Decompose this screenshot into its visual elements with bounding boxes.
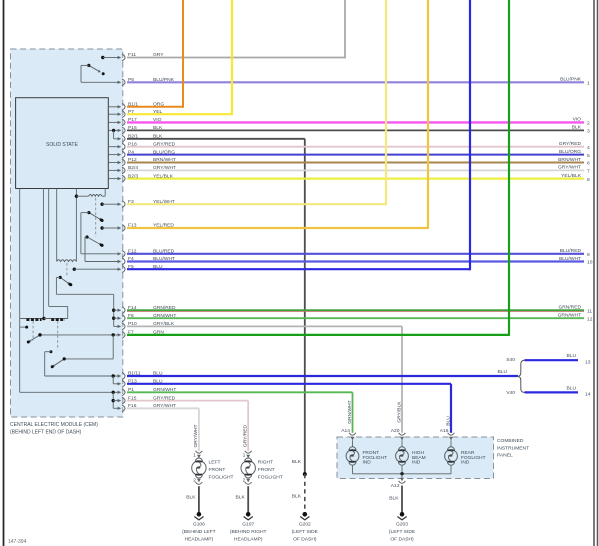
svg-text:PANEL: PANEL <box>497 453 513 459</box>
left front foglight connector pin 2 <box>197 479 201 483</box>
svg-text:IND: IND <box>412 460 421 466</box>
wire 6 P12 BRN/WHT <box>127 162 584 164</box>
svg-text:GRY/WHT: GRY/WHT <box>193 424 199 447</box>
pin P10 connector + label GRY/BLK <box>118 325 122 328</box>
svg-text:S40: S40 <box>506 357 515 363</box>
svg-text:(LEFT SIDE: (LEFT SIDE <box>292 529 319 535</box>
svg-text:(BEHIND LEFT: (BEHIND LEFT <box>182 529 215 535</box>
svg-text:BLK: BLK <box>572 125 582 131</box>
svg-text:5: 5 <box>587 153 590 159</box>
wire 3 P16 BLK <box>127 129 584 131</box>
switch S4 <box>28 335 40 342</box>
svg-text:13: 13 <box>585 359 591 365</box>
pin P4 connector + label BLU/ORG <box>118 153 122 156</box>
svg-text:G202: G202 <box>299 521 311 527</box>
svg-text:GRY/BLK: GRY/BLK <box>396 401 402 423</box>
wire P1 GRN/WHT down to A14 <box>127 391 353 393</box>
pin P18 connector + label GRY/RED <box>118 145 122 148</box>
wire 10 F4 BLU/WHT <box>127 260 584 262</box>
left front foglight connector pin 1 <box>196 451 203 453</box>
wire 8 B2/3 YEL/BLK <box>127 178 584 180</box>
wire: box vertical to bar junction <box>42 189 44 319</box>
svg-text:2: 2 <box>193 477 196 483</box>
pin B2/3 connector + label YEL/BLK <box>118 177 122 180</box>
switch S1 (fog relay contact) <box>89 213 102 220</box>
switch S2 <box>87 237 101 245</box>
resistor bar R1 <box>20 318 44 320</box>
svg-text:A14: A14 <box>341 428 350 434</box>
svg-text:(LEFT SIDE: (LEFT SIDE <box>389 529 416 535</box>
pin P7 connector + label YEL <box>118 113 122 116</box>
svg-text:BLU: BLU <box>566 353 576 359</box>
rear foglight indicator lamp <box>450 440 452 447</box>
svg-text:FRONT: FRONT <box>209 467 226 473</box>
svg-text:OF DASH): OF DASH) <box>390 536 414 542</box>
svg-text:BLK: BLK <box>292 493 302 499</box>
wire P7 YEL to top <box>127 113 232 115</box>
svg-text:IND: IND <box>363 460 372 466</box>
wire 9 F12 BLU/RED <box>127 253 584 255</box>
wire B1/1 ORG to top <box>127 106 183 108</box>
ground G203 <box>400 512 405 517</box>
svg-text:8: 8 <box>587 177 590 183</box>
svg-text:147-394: 147-394 <box>8 539 27 545</box>
switch S5 contact to B1/11 <box>49 350 52 353</box>
svg-text:BLU/WHT: BLU/WHT <box>559 256 581 262</box>
wire: box vertical to bar2 right (staple) <box>48 189 50 307</box>
pin B2/1 connector + label BLK <box>118 137 122 140</box>
svg-text:A16: A16 <box>440 428 449 434</box>
svg-text:GRN/RED: GRN/RED <box>558 305 581 311</box>
svg-text:(BEHIND RIGHT: (BEHIND RIGHT <box>230 529 267 535</box>
jumper P16 to B2/1 <box>112 129 115 132</box>
wire F7 GRN to top <box>127 334 509 336</box>
wire P13 BLU down to A16 <box>127 383 451 385</box>
wire 4 P18 GRY/RED <box>127 146 584 148</box>
svg-text:GRN/WHT: GRN/WHT <box>558 313 581 319</box>
R1 actuator dashed link <box>32 321 34 341</box>
wire BLK dashed to G202 <box>304 474 306 513</box>
svg-text:OF DASH): OF DASH) <box>293 536 317 542</box>
wire: P1 row <box>20 391 118 393</box>
wire 1 P6 BLU/PNK <box>127 81 584 83</box>
wire: S2 pivot to F4 row <box>85 236 87 238</box>
wire 12 F6 GRN/WHT <box>127 317 584 319</box>
svg-text:YEL/BLK: YEL/BLK <box>561 173 582 179</box>
svg-text:G203: G203 <box>396 521 408 527</box>
svg-text:IND: IND <box>461 460 470 466</box>
wire B1/11 BLU to splice brace <box>127 375 518 377</box>
pin F6 connector + label GRN/WHT <box>118 317 122 320</box>
svg-text:GRY/RED: GRY/RED <box>243 424 249 447</box>
CEM module background <box>11 49 123 417</box>
wire F5 BLU to top <box>127 268 470 270</box>
svg-text:CENTRAL ELECTRIC MODULE (CEM): CENTRAL ELECTRIC MODULE (CEM) <box>10 422 98 428</box>
pin P12 connector + label BRN/WHT <box>118 161 122 164</box>
svg-text:14: 14 <box>585 392 591 398</box>
svg-text:LEFT: LEFT <box>209 459 221 465</box>
relay coil K2 <box>57 260 77 262</box>
wire: F7 column down to S5 <box>112 333 115 336</box>
wire: box to relay coil K2 <box>56 189 58 262</box>
splice brace S40/V40 <box>517 360 524 392</box>
svg-text:BLU: BLU <box>497 369 507 375</box>
wire: F3 terminal <box>100 203 103 206</box>
wire: F11 internal stub <box>101 56 104 59</box>
pin F5 connector + label BLU <box>118 268 122 271</box>
pin F7 connector + label GRN <box>118 333 122 336</box>
ground G107 <box>246 512 251 517</box>
svg-text:(BEHIND LEFT END OF DASH): (BEHIND LEFT END OF DASH) <box>10 430 82 436</box>
svg-text:BLU/PNK: BLU/PNK <box>560 77 582 83</box>
svg-text:FOGLIGHT: FOGLIGHT <box>209 474 234 480</box>
wire F11 GRY to top <box>127 57 345 59</box>
wire 13 S40 BLU <box>525 359 579 361</box>
svg-text:BLU: BLU <box>445 416 451 426</box>
pin F15 connector + label GRY/RED <box>118 399 122 402</box>
svg-text:INSTRUMENT: INSTRUMENT <box>497 445 529 451</box>
wire 5 P4 BLU/ORG <box>127 154 584 156</box>
svg-text:GRN/WHT: GRN/WHT <box>347 400 353 423</box>
svg-text:V40: V40 <box>506 390 515 396</box>
svg-text:1: 1 <box>243 453 246 459</box>
pin B1/1 connector + label ORG <box>118 105 122 108</box>
pin F14 connector + label GRN/RED <box>118 309 122 312</box>
svg-text:HEADLAMP): HEADLAMP) <box>234 536 263 542</box>
svg-text:BRN/WHT: BRN/WHT <box>558 157 581 163</box>
wire: F5 terminal <box>73 268 76 271</box>
svg-text:G107: G107 <box>242 521 254 527</box>
svg-text:4: 4 <box>587 145 590 151</box>
svg-text:COMBINED: COMBINED <box>497 438 524 444</box>
jumper P1 to F15 to F16 <box>112 391 115 394</box>
left front foglight lamp <box>192 461 206 475</box>
switch S4 contact <box>20 326 27 328</box>
svg-text:BLK: BLK <box>389 495 399 501</box>
svg-text:RIGHT: RIGHT <box>258 459 273 465</box>
R2 actuator dashed link <box>57 321 59 350</box>
wire P10 GRY/BLK down to A20 <box>127 325 402 327</box>
wire F16 GRY/WHT down to left foglight <box>127 407 199 409</box>
svg-text:GRY/RED: GRY/RED <box>559 141 582 147</box>
connector A13 <box>401 474 403 478</box>
ground G106 <box>197 512 202 517</box>
svg-text:1: 1 <box>587 81 590 87</box>
wire B2/1 BLK down to G202 <box>127 138 305 140</box>
pin P17 connector + label VIO <box>118 121 122 124</box>
wire: S1 pivot to F12 row <box>81 212 89 214</box>
pin P6 connector + label BLU/PNK <box>118 81 122 84</box>
right front foglight connector pin 2 <box>246 479 250 483</box>
right front foglight connector pin 1 <box>245 451 252 453</box>
pin F13 connector + label YEL/RED <box>118 226 122 229</box>
border left <box>3 0 5 546</box>
wire: box to relay coil K1 left <box>75 189 77 262</box>
pin F3 connector + label YEL/WHT <box>118 203 122 206</box>
svg-text:1: 1 <box>193 453 196 459</box>
svg-text:FOGLIGHT: FOGLIGHT <box>258 474 283 480</box>
solid state U1 <box>16 98 109 189</box>
svg-text:BLK: BLK <box>186 495 196 501</box>
K1 actuator dashed link <box>95 198 97 237</box>
svg-text:BLK: BLK <box>292 459 302 465</box>
svg-text:GRY/WHT: GRY/WHT <box>558 165 581 171</box>
svg-text:G106: G106 <box>193 521 205 527</box>
svg-text:BLK: BLK <box>236 495 246 501</box>
resistor bar R2 <box>44 318 68 320</box>
instrument panel ground bus <box>352 465 354 474</box>
node: bar junction <box>42 317 45 320</box>
wire 14 V40 BLU <box>525 391 579 393</box>
svg-text:11: 11 <box>587 308 592 314</box>
relay coil K1 <box>75 195 78 198</box>
svg-text:3: 3 <box>587 129 590 135</box>
pin P13 connector + label BLU <box>118 382 122 385</box>
pin F4 connector + label BLU/WHT <box>118 260 122 263</box>
svg-text:VIO: VIO <box>573 117 582 123</box>
svg-text:A20: A20 <box>391 428 400 434</box>
wire BLK right foglight to ground <box>247 486 249 513</box>
pin P1 connector + label GRN/WHT <box>118 391 122 394</box>
wire BLK A13 to ground <box>401 486 403 514</box>
wire 7 B2/4 GRY/WHT <box>127 169 584 171</box>
svg-text:HEADLAMP): HEADLAMP) <box>185 536 214 542</box>
pin B2/4 connector + label GRY/WHT <box>118 169 122 172</box>
connector A20 <box>399 433 406 435</box>
pin B1/11 connector + label BLU <box>118 374 122 377</box>
switch S0 (foglight switch) <box>89 65 101 72</box>
svg-text:2: 2 <box>587 121 590 127</box>
svg-text:9: 9 <box>587 252 590 258</box>
high beam indicator lamp <box>401 440 403 447</box>
svg-text:BLU/ORG: BLU/ORG <box>559 149 581 155</box>
ground G202 <box>303 512 308 517</box>
switch S3 <box>60 277 70 284</box>
wire BLK left foglight to ground <box>198 486 200 513</box>
svg-text:A13: A13 <box>391 483 400 489</box>
front foglight indicator lamp <box>352 440 354 447</box>
pin F12 connector + label BLU/RED <box>118 252 122 255</box>
connector A14 <box>349 433 356 435</box>
svg-text:10: 10 <box>587 260 593 266</box>
wire: F13 terminal <box>100 226 103 229</box>
svg-text:7: 7 <box>587 169 590 175</box>
wire F13 YEL/RED to top <box>127 227 428 229</box>
wires: solid-state output stubs <box>108 106 118 108</box>
wire F3 YEL/WHT to top <box>127 203 386 205</box>
wire: F7 row to S4 pivot <box>38 333 41 336</box>
svg-text:BLU/RED: BLU/RED <box>560 248 582 254</box>
switch S5 <box>52 359 64 367</box>
border right (double) <box>593 0 595 546</box>
jumper B1/11 to P13 <box>112 374 115 377</box>
wire 11 F14 GRN/RED <box>127 309 584 311</box>
svg-text:BLU: BLU <box>566 385 576 391</box>
wire F15 GRY/RED down to right foglight <box>127 400 248 402</box>
wire: box left vertical to bars and P1 <box>19 189 21 393</box>
svg-text:2: 2 <box>243 477 246 483</box>
svg-text:12: 12 <box>587 316 593 322</box>
combined instrument panel background <box>337 437 494 479</box>
wire: S3 pivot to F14/F6/P10 column <box>56 276 60 278</box>
right front foglight lamp <box>241 461 255 475</box>
svg-text:SOLID STATE: SOLID STATE <box>46 142 78 148</box>
pin F11 connector + label GRY <box>118 56 122 59</box>
wire: P6 net to switch S0 pivot <box>81 64 89 66</box>
node: BLK junction <box>303 472 307 476</box>
wire 2 P17 VIO <box>127 121 584 123</box>
svg-text:FRONT: FRONT <box>258 467 275 473</box>
connector A16 <box>448 433 455 435</box>
svg-text:6: 6 <box>587 161 590 167</box>
pin P16 connector + label BLK <box>118 129 122 132</box>
pin F16 connector + label GRY/WHT <box>118 407 122 410</box>
K2 actuator dashed link <box>66 263 68 277</box>
